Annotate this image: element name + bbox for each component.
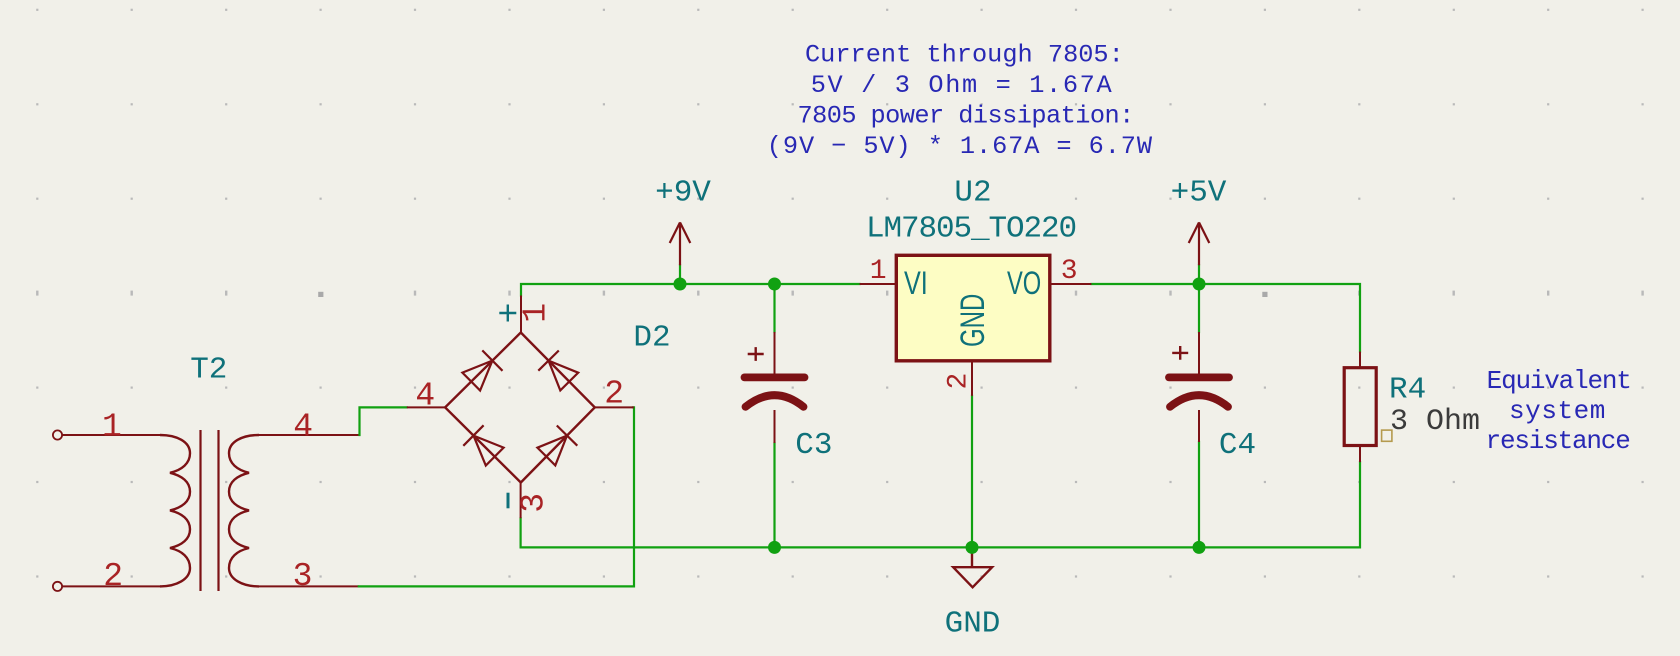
- C4 pin 2 line: [1198, 410, 1200, 442]
- svg-text:resistance: resistance: [1486, 426, 1630, 456]
- D2 plus pin name: [499, 305, 516, 322]
- D2 pin 2 line (AC input, right): [595, 406, 634, 408]
- svg-text:R4: R4: [1389, 373, 1426, 408]
- wire U2 GND pin down: [971, 396, 973, 548]
- T2 pin 2 open-end circle: [53, 582, 62, 591]
- junction at C4 bottom: [1193, 541, 1206, 554]
- transformer T2 core line left: [199, 430, 201, 591]
- wire +5V rail (U2 VO to R4): [1091, 284, 1360, 352]
- wire C3 top: [773, 284, 775, 332]
- svg-text:2: 2: [103, 558, 123, 595]
- svg-text:1: 1: [517, 303, 554, 323]
- D2 pin 4 line (AC input, left): [407, 406, 445, 408]
- T2 pin 1 line: [63, 434, 162, 436]
- svg-text:VO: VO: [1007, 265, 1041, 302]
- junction at C3 top: [768, 278, 781, 291]
- C3 pin 1 line: [774, 332, 776, 374]
- wire ground rail (bridge - output to R4 bottom): [521, 462, 1360, 547]
- +5V power symbol arrow: [1189, 222, 1210, 265]
- svg-text:system: system: [1509, 396, 1606, 426]
- D2 pin 3 line (- output, bottom): [520, 483, 522, 519]
- T2 pin 2 line: [63, 585, 162, 587]
- D2 diode bottom-left (- bottom to AC left): [474, 436, 504, 466]
- svg-text:U2: U2: [954, 175, 991, 210]
- C4 plus polarity mark: [1172, 346, 1188, 360]
- svg-text:C4: C4: [1219, 428, 1256, 463]
- svg-text:GND: GND: [954, 294, 992, 347]
- svg-text:T2: T2: [190, 353, 227, 388]
- svg-text:3 Ohm: 3 Ohm: [1390, 405, 1480, 439]
- T2 pin 4 line: [259, 434, 359, 436]
- capacitor C3 bottom curved plate: [746, 395, 804, 407]
- +9V power symbol arrow: [670, 222, 691, 265]
- svg-text:2: 2: [943, 373, 974, 390]
- wire +9V power stub: [679, 265, 681, 284]
- wire +9V rail (bridge + output to U2 VI): [521, 284, 860, 296]
- U2 pin 1 line (VI): [860, 283, 897, 285]
- capacitor C4 bottom curved plate: [1170, 395, 1228, 407]
- svg-text:1: 1: [870, 256, 887, 287]
- wire T2 pin3 to bridge pin2: [359, 407, 634, 586]
- T2 pin 3 line: [259, 585, 359, 587]
- svg-text:3: 3: [293, 558, 313, 595]
- svg-text:+5V: +5V: [1171, 175, 1227, 210]
- transformer T2 core line right: [217, 430, 219, 591]
- wire C3 bottom: [773, 443, 775, 547]
- svg-text:7805 power dissipation:: 7805 power dissipation:: [797, 102, 1133, 131]
- svg-text:Current through 7805:: Current through 7805:: [805, 41, 1124, 70]
- wire C4 bottom: [1198, 442, 1200, 547]
- R4 pin 2 line: [1359, 446, 1361, 463]
- svg-text:3: 3: [1061, 256, 1078, 287]
- R4 field anchor square: [1382, 430, 1392, 441]
- svg-text:5V / 3 Ohm = 1.67A: 5V / 3 Ohm = 1.67A: [811, 71, 1114, 100]
- U2 pin 3 line (VO): [1050, 283, 1092, 285]
- op U2 LM7805 body: [896, 255, 1050, 360]
- D2 diode bottom-right (- bottom to AC right): [537, 436, 567, 466]
- svg-text:VI: VI: [904, 266, 928, 302]
- C3 plus polarity mark: [748, 347, 764, 361]
- svg-text:1: 1: [102, 409, 122, 446]
- D2 diode top-left (AC left to + top): [462, 361, 492, 391]
- resistor R4 body: [1344, 368, 1376, 446]
- C4 pin 1 line: [1198, 332, 1200, 374]
- svg-text:D2: D2: [633, 321, 670, 356]
- U2 pin 2 line (GND): [971, 361, 973, 396]
- svg-text:GND: GND: [945, 606, 1001, 641]
- junction at ground tap: [966, 541, 979, 554]
- junction at +5V tap: [1193, 278, 1206, 291]
- capacitor C4 top plate: [1169, 373, 1229, 381]
- svg-text:LM7805_TO220: LM7805_TO220: [866, 211, 1076, 246]
- svg-text:2: 2: [604, 376, 624, 413]
- svg-text:C3: C3: [795, 428, 832, 463]
- svg-text:4: 4: [415, 378, 435, 415]
- capacitor C3 top plate: [745, 373, 805, 381]
- junction at C3 bottom: [768, 541, 781, 554]
- transformer T2 primary winding: [160, 435, 190, 586]
- D2 pin 1 line (+ output, top): [520, 296, 522, 333]
- junction at +9V tap: [674, 278, 687, 291]
- D2 minus pin name (rotated): [507, 493, 510, 509]
- svg-text:(9V − 5V) * 1.67A = 6.7W: (9V − 5V) * 1.67A = 6.7W: [767, 132, 1153, 161]
- svg-text:Equivalent: Equivalent: [1487, 366, 1631, 396]
- C3 pin 2 line: [774, 410, 776, 443]
- T2 pin 1 open-end circle: [53, 430, 62, 439]
- R4 pin 1 line: [1359, 352, 1361, 368]
- wire +5V power stub: [1198, 265, 1200, 284]
- diode bridge D2 diamond outline: [445, 333, 595, 483]
- D2 diode top-right (AC right to + top): [549, 361, 579, 391]
- svg-text:4: 4: [293, 409, 313, 446]
- wire C4 top: [1198, 284, 1200, 332]
- transformer T2 secondary winding: [229, 435, 259, 586]
- svg-text:3: 3: [516, 493, 553, 513]
- wire T2 pin4 to bridge pin4 (jog): [360, 407, 407, 435]
- ground symbol: [953, 547, 992, 587]
- svg-text:+9V: +9V: [655, 175, 711, 210]
